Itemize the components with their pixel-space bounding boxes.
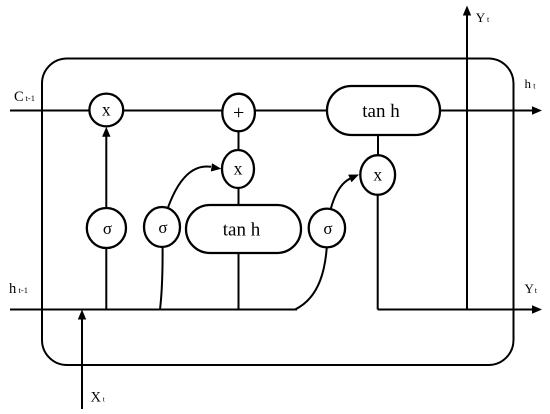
sigma circle 3 — [309, 209, 345, 248]
wire h-line right segment (output to Y t) — [378, 309, 534, 311]
arrowhead sigma1 into X1 — [102, 127, 110, 137]
svg-text:+: + — [233, 102, 244, 124]
wire C-line (cell state, left to right) — [10, 110, 534, 112]
wire plus down to X2 — [238, 112, 240, 169]
svg-text:x: x — [234, 159, 243, 179]
svg-text:t-1: t-1 — [26, 93, 35, 103]
wire Y vertical line — [466, 16, 468, 311]
svg-text:X: X — [91, 389, 102, 405]
svg-text:tan h: tan h — [362, 101, 400, 122]
svg-text:h: h — [525, 76, 532, 91]
add circle + — [222, 94, 255, 132]
multiply circle X1 (forget gate) — [89, 94, 123, 127]
svg-text:C: C — [14, 89, 24, 105]
svg-text:σ: σ — [323, 219, 332, 238]
svg-text:x: x — [373, 165, 382, 185]
svg-text:t: t — [487, 15, 490, 24]
svg-text:σ: σ — [103, 219, 112, 238]
sigma circle 2 — [144, 207, 180, 247]
wire sigma3 curved arrow to X out — [327, 178, 351, 228]
svg-text:σ: σ — [158, 218, 167, 237]
svg-text:t-1: t-1 — [19, 285, 28, 295]
wire h-line left segment (h t-1 input) — [10, 309, 297, 311]
arrowhead sigma3 into X out — [348, 175, 359, 183]
wire X t input vertical — [81, 318, 83, 409]
sigma circle 1 — [87, 208, 126, 248]
svg-text:Y: Y — [476, 10, 486, 25]
arrowhead sigma2 into X2 — [211, 163, 222, 171]
svg-text:tan h: tan h — [223, 220, 261, 241]
wire tanh mid down to h-line — [238, 252, 240, 310]
tanh box middle — [186, 205, 301, 253]
arrowhead Y t output top — [463, 6, 471, 16]
wire X2 down to tanh mid — [238, 169, 240, 206]
wire sigma1 up to X1 — [105, 137, 107, 229]
multiply circle X2 (input gate) — [222, 150, 254, 188]
wire sigma2 curved arrow to X2 — [162, 166, 211, 227]
arrowhead h t output right — [532, 106, 542, 114]
svg-text:h: h — [9, 281, 17, 297]
arrowhead Y t output right — [532, 305, 542, 313]
svg-text:t: t — [535, 286, 538, 295]
svg-text:x: x — [102, 100, 111, 120]
svg-text:t: t — [533, 82, 536, 91]
wire tanh TR down to X out — [377, 134, 379, 175]
multiply circle X out (output gate) — [360, 155, 395, 195]
wire sigma3 down curve to h-line end — [296, 228, 328, 309]
svg-text:t: t — [103, 395, 106, 404]
arrowhead X t into h-line — [78, 310, 86, 320]
wire sigma2 down slight curve — [160, 227, 163, 310]
svg-text:Y: Y — [525, 281, 535, 296]
wire X out down to h-line — [377, 175, 379, 310]
wire sigma1 down to h-line — [105, 228, 107, 310]
tanh box top right — [327, 86, 440, 135]
border cell rounded rect — [42, 59, 514, 366]
